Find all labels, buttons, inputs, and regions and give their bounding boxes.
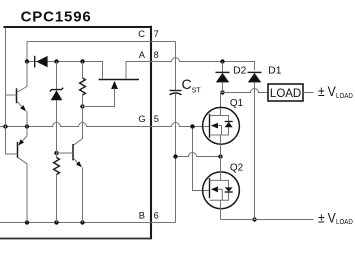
- wire source line from C_ST column to Q1/Q2 common source, hop over gate column: [176, 153, 221, 157]
- node G rail / gate column junction: [190, 124, 194, 128]
- node G rail / emitter column junction: [25, 124, 29, 128]
- resistor upper zigzag: [80, 78, 86, 95]
- svg-text:LOAD: LOAD: [336, 219, 353, 226]
- diode D1 lead down to load return rail: [254, 82, 256, 219]
- wire Q1 drain lead: [220, 93, 222, 116]
- node A line / D2 junction: [220, 59, 224, 63]
- resistor upper bottom lead: [82, 95, 84, 107]
- MOSFET Q2 drain lead down to load return rail: [220, 200, 222, 219]
- wire B rail from inside IC through pin 6 to C_ST column: [0, 222, 176, 224]
- wire A rail right of internal FET through pin 8 to D1, hop over C_ST column: [126, 58, 255, 79]
- depletion FET channel bar: [99, 79, 140, 81]
- wire internal C column from pin C line down to diode node: [26, 42, 28, 62]
- IC package box bottom edge: [0, 238, 151, 240]
- svg-text:8: 8: [154, 50, 159, 60]
- svg-text:LOAD: LOAD: [336, 92, 353, 99]
- node G rail / base column junction: [3, 124, 7, 128]
- MOSFET Q2 drain stub: [210, 192, 229, 200]
- node D2 bottom / Q1 drain junction: [220, 90, 224, 94]
- node D1 bottom / load return rail junction: [252, 217, 256, 221]
- MOSFET Q2 body arrow: [211, 186, 218, 192]
- diode D2 top lead: [222, 62, 224, 73]
- depletion FET gate arrow: [111, 81, 118, 89]
- node source line / C_ST column junction: [173, 154, 177, 158]
- MOSFET Q1 body diode: [225, 122, 233, 127]
- MOSFET Q1 body arrow: [211, 123, 218, 129]
- svg-text:V: V: [328, 210, 336, 226]
- svg-text:D1: D1: [268, 66, 281, 77]
- capacitor C_ST top plate: [170, 90, 182, 92]
- diode D2 body: [216, 73, 229, 83]
- MOSFET Q1 body diode cathode bar: [225, 121, 233, 123]
- zener diode body: [51, 90, 63, 100]
- transistor PNP base lead: [6, 153, 18, 155]
- transistor PNP base bar: [17, 142, 19, 158]
- LOAD box: [268, 84, 303, 101]
- node B rail / NPN emitter junction: [80, 220, 84, 224]
- diode D1 body: [248, 73, 261, 83]
- node resistor bottom / FET gate junction: [80, 104, 84, 108]
- MOSFET Q1 source stub: [210, 127, 229, 135]
- svg-text:A: A: [139, 50, 146, 60]
- MOSFET Q2 source stub: [210, 180, 229, 187]
- diode internal on A rail cathode bar: [34, 56, 36, 68]
- svg-text:CST: CST: [182, 76, 202, 95]
- MOSFET Q2 source lead up to common source node: [220, 157, 222, 181]
- zener diode cathode bar with bent tails: [50, 88, 63, 92]
- node A rail / resistor junction: [80, 59, 84, 63]
- svg-text:LOAD: LOAD: [270, 88, 301, 100]
- resistor lower zigzag: [54, 158, 60, 175]
- wire LOAD to upper V_LOAD terminal: [303, 92, 314, 94]
- wire base column connecting transistor bases to box top: [5, 28, 7, 155]
- wire A rail left of internal FET: [27, 62, 103, 79]
- node A rail / zener junction: [54, 59, 58, 63]
- svg-text:V: V: [328, 83, 336, 99]
- transistor PNP emitter lead with arrow into base: [22, 127, 27, 141]
- MOSFET Q2 gate bar: [209, 178, 211, 198]
- svg-text:5: 5: [154, 114, 159, 124]
- MOSFET Q2 body diode: [225, 187, 233, 191]
- svg-text:6: 6: [154, 211, 159, 221]
- svg-text:G: G: [138, 114, 145, 124]
- svg-text:B: B: [139, 211, 145, 221]
- diode D2 bottom lead: [222, 82, 224, 92]
- node source line / Q1-Q2 junction: [218, 154, 222, 158]
- resistor lower bottom lead: [56, 175, 58, 223]
- diode internal on A rail body: [36, 56, 47, 67]
- svg-text:CPC1596: CPC1596: [21, 8, 92, 25]
- svg-text:D2: D2: [233, 66, 246, 77]
- svg-text:Q2: Q2: [230, 163, 244, 174]
- transistor NPN upper-left base bar: [16, 88, 18, 103]
- transistor NPN lower base lead: [57, 152, 74, 154]
- MOSFET Q2 circle: [203, 172, 240, 209]
- MOSFET Q2 body diode cathode bar: [225, 191, 233, 193]
- transistor NPN lower base bar: [72, 144, 74, 160]
- MOSFET Q1 source lead down to common source node: [220, 135, 222, 157]
- resistor upper (gate bleed) top lead: [82, 62, 84, 79]
- resistor lower top lead: [56, 153, 58, 158]
- node B rail / lower resistor junction: [54, 220, 58, 224]
- zener diode bottom lead down to lower node: [56, 100, 58, 153]
- zener diode top lead: [56, 62, 58, 90]
- wire load line from Q1 drain to LOAD box, hop over D1 lead: [221, 89, 269, 93]
- wire load return rail to lower V_LOAD terminal: [221, 219, 314, 221]
- node B rail / PNP collector junction: [25, 220, 29, 224]
- wire pin C line from internal node to external C_ST column: [27, 41, 176, 43]
- transistor NPN upper-left collector lead: [18, 62, 27, 92]
- transistor NPN lower emitter lead with arrow: [73, 158, 77, 163]
- svg-text:C: C: [138, 29, 145, 39]
- transistor NPN upper-left emitter lead with arrow: [17, 101, 22, 106]
- IC package box right edge: [150, 26, 152, 239]
- capacitor C_ST curved bottom plate: [170, 93, 182, 95]
- wire G rail from inside IC through pin 5 to Q1 gate, hops over zener column, node column, C_ST column: [0, 123, 210, 127]
- wire gate column from G rail down to Q2 gate: [193, 127, 210, 191]
- wire C_ST column vertical upper segment: [175, 42, 177, 91]
- diode D2 cathode bar: [216, 71, 230, 73]
- MOSFET Q1 drain stub: [210, 116, 229, 122]
- svg-text:±: ±: [318, 210, 325, 226]
- wire node column from resistor node down to lower NPN collector: [74, 107, 83, 145]
- label lower V_LOAD: [318, 210, 353, 226]
- IC package box top edge: [4, 26, 152, 28]
- svg-text:±: ±: [318, 83, 325, 99]
- label upper V_LOAD: [318, 83, 353, 99]
- svg-text:Q1: Q1: [230, 98, 244, 109]
- node A rail / C column junction: [25, 59, 29, 63]
- MOSFET Q1 gate bar: [209, 114, 211, 138]
- transistor PNP collector lead: [18, 157, 28, 222]
- node zener bottom / lower transistor base junction: [54, 151, 58, 155]
- svg-text:7: 7: [154, 29, 159, 39]
- diode D1 cathode bar: [248, 71, 262, 73]
- wire C_ST column vertical lower segment down to B wire: [175, 94, 177, 223]
- transistor NPN upper-left base lead: [6, 94, 17, 96]
- MOSFET Q1 circle: [203, 107, 240, 144]
